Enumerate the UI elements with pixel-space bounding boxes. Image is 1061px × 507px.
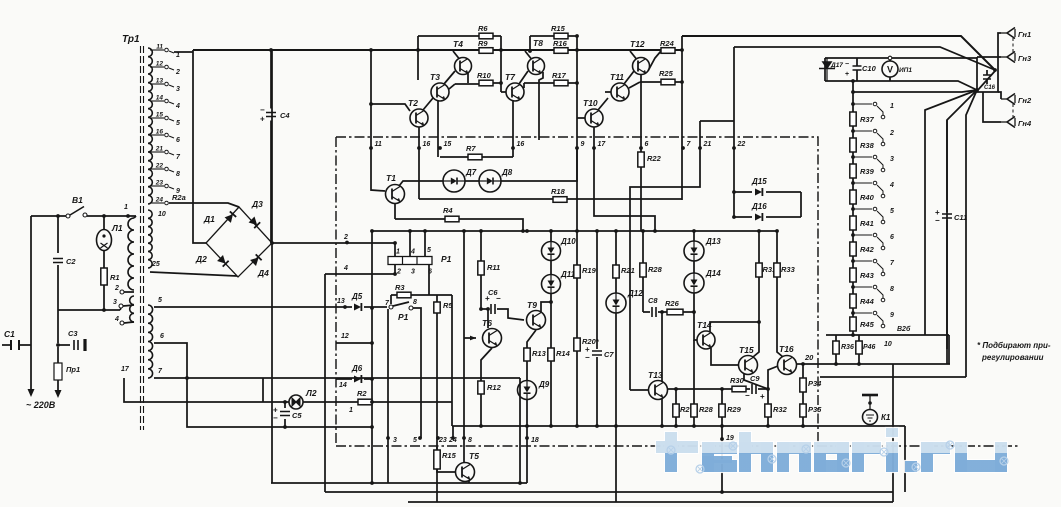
transistor Т16	[778, 344, 797, 375]
wire box to jack box top	[920, 57, 977, 59]
resistor R24	[660, 39, 675, 53]
wire T4 to bus	[453, 51, 459, 59]
svg-text:−: −	[935, 216, 940, 225]
svg-text:Т11: Т11	[610, 72, 624, 82]
wire R13 to D9	[526, 361, 528, 380]
transistor Т12	[630, 39, 650, 75]
capacitor С10	[853, 64, 877, 73]
svg-text:Т15: Т15	[739, 345, 754, 355]
wire rectifier rail down	[271, 243, 273, 483]
transistor Т7	[505, 72, 524, 101]
wire tap7 to L2 row link	[262, 378, 264, 402]
resistor R34	[800, 378, 822, 392]
svg-text:R29: R29	[727, 405, 742, 414]
diode Д6	[351, 364, 363, 383]
diode Д5	[351, 292, 363, 311]
resistor R11	[478, 261, 500, 275]
wire R3 row	[391, 294, 452, 296]
wire R17 leads	[524, 82, 577, 84]
junction	[549, 300, 553, 304]
terminal IP1 top	[888, 56, 892, 60]
terminal primary 4	[120, 321, 124, 325]
svg-text:2: 2	[343, 234, 348, 241]
svg-text:Д9: Д9	[538, 380, 550, 389]
capacitor С9	[750, 374, 760, 394]
wire T10-T11	[598, 98, 608, 110]
svg-text:Гн1: Гн1	[1018, 30, 1031, 39]
wire tap 25 to bridge bottom	[150, 272, 237, 276]
diode Д12	[606, 289, 643, 313]
junction	[393, 229, 412, 276]
wire T12 emitter to node 6 / R22	[640, 75, 642, 152]
resistor R28b	[691, 404, 714, 417]
svg-text:Д7: Д7	[465, 168, 477, 177]
wire node 21 top jog	[700, 120, 734, 122]
terminal primary 3	[119, 304, 123, 308]
wire to C3	[58, 344, 70, 346]
junction node row	[369, 146, 736, 150]
junction	[975, 68, 997, 92]
wire D8 to node 9	[501, 148, 577, 181]
svg-text:8: 8	[468, 437, 472, 444]
resistor R7	[466, 144, 482, 160]
wire R15 loop	[530, 35, 577, 37]
svg-text:Т1: Т1	[386, 173, 396, 183]
svg-text:21: 21	[155, 146, 164, 153]
wire T10 base stub	[577, 117, 585, 119]
svg-text:~ 220В: ~ 220В	[26, 400, 56, 410]
ladder tap 8	[853, 285, 894, 302]
svg-text:R21: R21	[621, 266, 635, 275]
transistor Т2	[408, 98, 428, 127]
svg-text:C4: C4	[280, 111, 290, 120]
svg-text:Д8: Д8	[501, 168, 513, 177]
svg-text:Л2: Л2	[305, 388, 317, 398]
svg-text:1: 1	[176, 52, 180, 59]
capacitor C4	[260, 106, 290, 124]
svg-text:22: 22	[737, 141, 746, 148]
svg-text:R36: R36	[841, 344, 854, 351]
svg-text:R44: R44	[860, 297, 875, 306]
resistor R10	[477, 71, 493, 86]
wire T7-T8	[519, 71, 528, 84]
svg-text:Пр1: Пр1	[66, 365, 80, 374]
wire to Gn3	[998, 56, 1001, 58]
arrow AC terminal left	[28, 389, 35, 397]
transistor Т10	[583, 98, 603, 127]
svg-text:R28: R28	[699, 405, 714, 414]
wire relay stub 4	[409, 231, 411, 257]
junction	[185, 376, 374, 485]
svg-text:17: 17	[121, 366, 130, 373]
svg-text:22: 22	[155, 163, 164, 170]
wire bottom left loop	[271, 482, 527, 484]
resistor R46	[856, 341, 862, 354]
diode	[217, 255, 229, 267]
secondary tap 21	[150, 146, 181, 162]
svg-text:С9: С9	[750, 374, 760, 383]
junction	[720, 437, 724, 494]
svg-text:5: 5	[176, 120, 180, 127]
secondary tap 23	[150, 180, 180, 196]
ladder tap 9	[853, 311, 894, 328]
wire terminal 17 to L2	[124, 378, 289, 402]
wire R20 bottom	[576, 351, 578, 426]
svg-text:Т12: Т12	[630, 39, 645, 49]
junction	[479, 424, 805, 428]
resistor R19	[574, 265, 597, 278]
transformer secondary lower winding	[148, 305, 153, 378]
svg-text:14: 14	[339, 382, 347, 389]
svg-text:R7: R7	[466, 144, 476, 153]
capacitor C2	[53, 257, 76, 266]
jack link dashes	[1012, 38, 1014, 117]
junction	[499, 81, 579, 85]
svg-text:6: 6	[160, 333, 164, 340]
svg-text:V: V	[887, 65, 893, 75]
svg-text:В1: В1	[72, 195, 83, 205]
svg-text:R10: R10	[477, 71, 492, 80]
svg-text:24: 24	[448, 437, 457, 444]
svg-text:R32: R32	[773, 405, 788, 414]
svg-text:R12: R12	[487, 383, 502, 392]
transistor Т6	[482, 318, 502, 348]
wire R34 top	[802, 364, 804, 378]
wire meter box	[825, 58, 920, 81]
svg-text:24: 24	[155, 197, 164, 204]
junction	[851, 259, 855, 263]
resistor R14	[548, 348, 571, 361]
svg-text:регулировании: регулировании	[981, 353, 1044, 362]
wire to Gn1	[998, 33, 1001, 57]
wire base row to R30	[667, 388, 732, 390]
svg-text:ИП1: ИП1	[899, 67, 912, 74]
transistor Т4	[453, 39, 472, 75]
wire primary 3	[120, 305, 134, 310]
ladder tap 3	[853, 155, 894, 172]
wire contact lever	[393, 302, 409, 306]
relay contact P1 7-8	[389, 305, 393, 309]
wire IP1 stubs	[889, 58, 891, 81]
svg-text:4: 4	[889, 182, 894, 189]
svg-text:−: −	[260, 106, 265, 115]
transistor Т11	[610, 72, 629, 101]
resistor R15	[551, 24, 568, 39]
wire D7-D8	[465, 180, 479, 182]
wire R33 to T16	[777, 277, 783, 357]
wire T1 emitter	[394, 204, 396, 220]
junction	[720, 387, 724, 391]
resistor R26	[665, 299, 683, 315]
wire top rail to output	[682, 36, 995, 70]
wire C8/R26 row	[643, 311, 694, 313]
switch B1	[66, 195, 87, 218]
svg-text:1: 1	[124, 204, 128, 211]
svg-text:Д2: Д2	[195, 254, 207, 264]
secondary tap 22	[150, 163, 180, 179]
wire D10 top	[550, 231, 552, 242]
svg-text:21: 21	[703, 141, 712, 148]
svg-text:−: −	[273, 414, 278, 423]
wire relay stub 5	[424, 231, 426, 257]
svg-text:1: 1	[349, 407, 353, 414]
secondary tap 12	[150, 61, 180, 77]
resistor R40	[850, 190, 875, 204]
wire R6 loop	[418, 35, 501, 37]
wire right loop down	[904, 426, 906, 492]
junction	[343, 305, 347, 309]
connector Гн1	[1001, 28, 1031, 40]
svg-text:Тр1: Тр1	[122, 34, 140, 45]
wire T8 emitter down	[539, 72, 543, 140]
wire T7 base	[501, 91, 506, 93]
svg-text:12: 12	[341, 333, 349, 340]
svg-text:R1: R1	[110, 273, 120, 282]
ladder tap 4	[853, 181, 894, 198]
wire lower output row	[820, 376, 966, 378]
svg-text:8: 8	[176, 171, 180, 178]
wire R31 top	[758, 231, 760, 263]
wire bridge diamond	[206, 207, 272, 277]
wire primary 1	[134, 216, 136, 218]
svg-text:Т5: Т5	[469, 451, 479, 461]
wire C5 stubs	[284, 402, 286, 427]
svg-text:8: 8	[890, 286, 894, 293]
svg-text:Р1: Р1	[398, 312, 409, 322]
svg-text:Т4: Т4	[453, 39, 463, 49]
svg-text:Т9: Т9	[527, 300, 537, 310]
wire node column x372	[371, 231, 373, 483]
svg-text:3: 3	[113, 299, 117, 306]
svg-text:4: 4	[175, 103, 180, 110]
wire T12 to R24	[648, 51, 661, 71]
svg-text:4: 4	[343, 265, 348, 272]
wire node to contact 7	[372, 306, 387, 308]
wire loop verticals	[418, 36, 501, 92]
wire pin 24 stub	[452, 426, 454, 438]
wire B1 to transformer primary 1	[87, 215, 136, 217]
junction	[801, 333, 861, 366]
svg-text:Д10: Д10	[560, 237, 576, 246]
svg-text:С7: С7	[604, 350, 614, 359]
svg-text:Т16: Т16	[779, 344, 794, 354]
resistor R18	[551, 187, 567, 202]
svg-text:R33: R33	[781, 265, 796, 274]
svg-text:В2б: В2б	[897, 325, 911, 333]
wire main top bus	[193, 49, 682, 51]
lamp L1	[97, 223, 123, 251]
resistor R27	[673, 404, 695, 417]
svg-text:+: +	[760, 392, 765, 401]
svg-text:17: 17	[598, 141, 607, 148]
wire R19-R20	[576, 278, 578, 338]
voltmeter IP1	[882, 61, 912, 77]
wire T2-T3	[423, 98, 433, 110]
svg-text:R17: R17	[552, 71, 567, 80]
wire R30-C9	[746, 388, 768, 390]
svg-text:R45: R45	[860, 320, 875, 329]
svg-text:R13: R13	[532, 349, 547, 358]
svg-text:−: −	[496, 294, 501, 303]
svg-text:Д15: Д15	[751, 177, 767, 186]
wire AC to bridge left	[193, 50, 206, 243]
svg-text:* Подбирают при-: * Подбирают при-	[977, 341, 1051, 350]
wire tap7 long	[154, 378, 520, 483]
svg-text:16: 16	[423, 141, 431, 148]
junction	[479, 307, 490, 311]
wire D14 to T14 base	[694, 293, 697, 340]
wire D13-D14	[693, 261, 695, 273]
resistor R41	[850, 216, 874, 230]
wire T11-T12	[624, 71, 634, 84]
junction	[674, 387, 678, 391]
wire R12 bottom	[480, 394, 482, 426]
wire tap5/node13 row	[154, 306, 372, 308]
wire T9 emitter to R13	[527, 330, 536, 348]
wire box to fan point	[920, 81, 977, 90]
wire to T16 base	[768, 366, 778, 389]
wire R35 bottom	[802, 417, 804, 426]
svg-text:Д14: Д14	[705, 269, 721, 278]
svg-text:2: 2	[889, 130, 894, 137]
wire L2 to R2 and P1 column	[303, 401, 452, 403]
transformer secondary middle winding	[148, 210, 152, 268]
ladder tap 1	[853, 102, 894, 119]
svg-text:18: 18	[531, 437, 539, 444]
svg-text:13: 13	[337, 298, 345, 305]
wire R18 row	[419, 198, 682, 200]
diode Д14	[684, 269, 721, 293]
svg-text:12: 12	[156, 61, 164, 68]
svg-text:13: 13	[156, 78, 164, 85]
wire fan long vertical	[966, 90, 977, 377]
wire R22 to internal bus	[640, 167, 642, 231]
svg-text:R40: R40	[860, 193, 875, 202]
arrowhead T6 base	[470, 336, 476, 341]
diode Д9	[518, 380, 550, 400]
svg-text:R41: R41	[860, 219, 874, 228]
lamp L2	[289, 388, 317, 409]
wire long bottom loop	[325, 491, 893, 493]
wire C4 column	[270, 50, 272, 243]
wire C7 column	[596, 231, 598, 426]
svg-text:+: +	[485, 294, 490, 303]
svg-text:Д12: Д12	[627, 289, 643, 298]
wire R27 column	[675, 389, 677, 426]
svg-text:Д5: Д5	[351, 292, 363, 301]
svg-text:C3: C3	[68, 329, 78, 338]
arrow AC terminal right	[55, 390, 62, 398]
terminal primary 2	[120, 290, 124, 294]
wire node 20 row	[796, 363, 950, 365]
ladder tap 5	[853, 207, 894, 224]
wire node 11 column to T1 base	[371, 50, 385, 191]
svg-text:Д6: Д6	[351, 364, 363, 373]
wire R28b column	[693, 340, 695, 426]
svg-text:R15: R15	[442, 451, 457, 460]
transistor Т9	[527, 300, 546, 330]
wire to T2 base	[371, 104, 410, 111]
svg-text:R43: R43	[860, 271, 875, 280]
resistor R17	[552, 71, 568, 86]
wire to R32	[767, 389, 769, 404]
capacitor С8	[648, 296, 658, 317]
wire T3 emitter / node 15 column	[437, 101, 439, 157]
svg-text:8: 8	[413, 299, 417, 306]
junction	[851, 311, 855, 315]
junction	[851, 102, 855, 106]
junction pins row	[386, 436, 529, 440]
svg-text:R25: R25	[659, 69, 674, 78]
wire second rail to output	[734, 47, 995, 70]
svg-text:−: −	[845, 61, 849, 68]
wire R11 bottom	[480, 275, 482, 309]
wire tap 24 to bridge	[169, 203, 239, 207]
svg-text:5: 5	[890, 208, 894, 215]
wire D15-D16 right	[800, 192, 802, 217]
wire T8 to bus	[525, 51, 531, 59]
transistor Т15	[739, 345, 758, 375]
wire ladder top feed	[853, 90, 977, 92]
secondary tap 24	[150, 197, 168, 205]
junction	[766, 387, 770, 391]
svg-text:15: 15	[156, 112, 164, 119]
svg-text:Т8: Т8	[533, 38, 543, 48]
svg-text:Т13: Т13	[648, 370, 663, 380]
secondary tap 16	[150, 129, 180, 145]
transistor Т3	[430, 72, 449, 101]
resistor R37	[850, 112, 875, 126]
resistor R33	[774, 263, 796, 277]
resistor R31	[756, 263, 776, 277]
wire jack box	[977, 57, 998, 92]
wire R5 col cont	[436, 447, 438, 450]
ladder tap 2	[853, 129, 894, 146]
svg-text:R2: R2	[357, 389, 367, 398]
svg-text:10: 10	[158, 211, 166, 218]
wire R21 top	[615, 231, 617, 265]
svg-text:23: 23	[155, 180, 164, 187]
svg-text:3: 3	[393, 437, 397, 444]
wire R33 top	[776, 231, 778, 263]
svg-text:Гн2: Гн2	[1018, 96, 1032, 105]
wire T10 emitter to node 17	[593, 127, 595, 148]
wire node 21 to T13 base	[630, 121, 700, 390]
transistor Т8	[528, 38, 545, 75]
resistor R29	[719, 404, 742, 417]
connector Гн4	[1001, 117, 1032, 129]
ladder tap 7	[853, 259, 895, 276]
svg-text:3: 3	[890, 156, 894, 163]
wire R31 to T15	[753, 277, 759, 357]
wire T14 emitter to T15	[711, 348, 739, 365]
wire node 17 to internal bus	[594, 148, 655, 231]
diode	[249, 217, 261, 229]
resistor R13	[524, 348, 547, 361]
wire node 9 column	[576, 36, 578, 231]
resistor R12	[478, 381, 502, 394]
svg-text:Р46: Р46	[863, 344, 876, 351]
wire R1 bottom	[103, 285, 105, 310]
svg-text:−: −	[585, 353, 590, 362]
svg-text:3: 3	[176, 86, 180, 93]
wire C2 column	[57, 216, 59, 310]
svg-text:R22: R22	[647, 154, 662, 163]
wire R36/R46 leads	[836, 335, 859, 364]
svg-text:+: +	[260, 115, 265, 124]
diode Д15	[751, 177, 767, 196]
junction	[56, 214, 130, 218]
